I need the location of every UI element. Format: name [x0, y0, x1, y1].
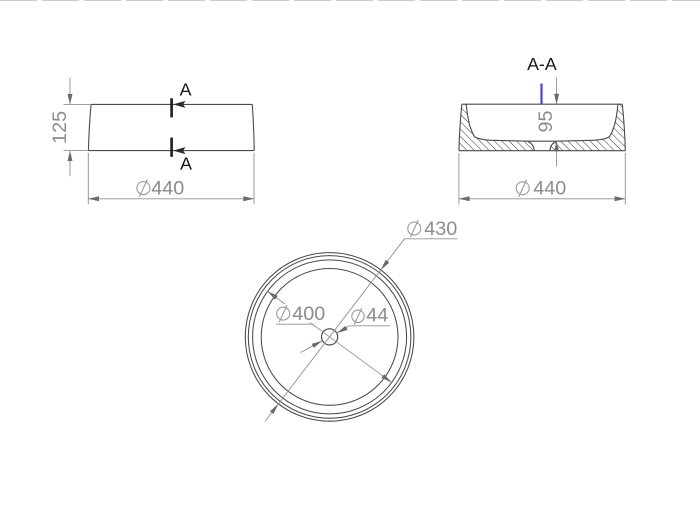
- dimension d400 text mask: [278, 304, 315, 323]
- dimension 125 extension lines: [64, 104, 91, 150]
- page top dashed trim line: [0, 0, 700, 2]
- dimension d440 front: extension lines: [88, 153, 254, 205]
- dimension text d400: [277, 305, 290, 322]
- section mark A bottom thick line: [170, 138, 173, 157]
- dimension d430 leader line: [278, 239, 404, 404]
- dimension 125 line bottom: [69, 151, 71, 177]
- outer rim circle d440: [245, 253, 414, 422]
- dimension text d440 section: [516, 180, 529, 197]
- svg-text:A-A: A-A: [527, 54, 557, 74]
- svg-text:440: 440: [151, 178, 184, 200]
- dimension d44 leader upper right: [337, 326, 390, 333]
- basin front outline: [88, 104, 254, 150]
- bowl floor circle: [261, 269, 398, 406]
- section hatch left wall: [459, 104, 534, 151]
- dimension text d440 front: [137, 180, 150, 197]
- bowl top circle d400: [253, 260, 407, 414]
- dimension d430 outer segment: [265, 404, 278, 422]
- svg-text:430: 430: [424, 218, 457, 240]
- svg-text:400: 400: [292, 303, 325, 325]
- svg-text:440: 440: [533, 178, 566, 200]
- section hatch right wall: [550, 104, 625, 151]
- dimension d400 shelf: [276, 323, 314, 325]
- dimension d440 section line: [459, 198, 625, 200]
- dimension 95 line bottom: [556, 141, 558, 167]
- dimension d44 leader lower left: [301, 341, 323, 353]
- drain hole circle d44: [322, 329, 338, 345]
- section arrow A bottom: [173, 147, 185, 154]
- dimension d400 diameter line: [268, 291, 392, 382]
- dimension 125 line top: [69, 78, 71, 105]
- blue centre mark: [540, 84, 542, 105]
- section arrow A top: [173, 101, 185, 108]
- section mark A top thick line: [170, 98, 173, 117]
- rim circle d430: [248, 256, 411, 419]
- svg-text:A: A: [180, 80, 192, 100]
- svg-text:44: 44: [366, 305, 388, 327]
- dimension text d44: [352, 308, 364, 324]
- section outline: [459, 104, 625, 151]
- svg-text:95: 95: [535, 110, 557, 132]
- dimension text d430: [408, 220, 421, 237]
- dimension 95 line top: [556, 78, 558, 105]
- svg-text:A: A: [180, 153, 192, 173]
- dimension d440 front line: [88, 198, 254, 200]
- svg-text:125: 125: [49, 111, 71, 144]
- dimension d440 section extension lines: [459, 153, 625, 205]
